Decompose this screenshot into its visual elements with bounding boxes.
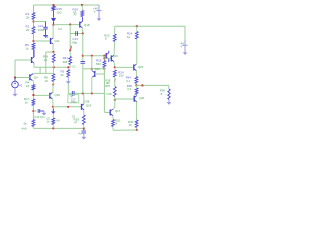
svg-text:Q18: Q18 [84,23,90,27]
svg-text:V: V [94,10,96,14]
svg-text:C19 10u: C19 10u [34,115,45,119]
svg-text:64: 64 [57,118,61,122]
svg-text:Q40: Q40 [95,67,101,71]
svg-text:1n: 1n [46,119,50,123]
svg-text:C4: C4 [58,27,62,31]
svg-text:10: 10 [129,123,133,127]
svg-text:100: 100 [57,10,62,14]
svg-text:Q17: Q17 [115,109,121,113]
svg-text:C26: C26 [106,92,112,96]
svg-text:Q24: Q24 [138,65,144,69]
svg-text:100u: 100u [38,28,45,32]
svg-text:4u: 4u [78,131,82,135]
svg-text:V1: V1 [19,83,23,87]
svg-text:47: 47 [74,121,78,125]
svg-text:V: V [180,44,182,48]
svg-text:2k: 2k [61,73,65,77]
svg-text:68p: 68p [72,40,77,44]
svg-text:C2: C2 [72,65,76,69]
svg-text:2k: 2k [26,16,30,20]
svg-text:1d: 1d [44,58,48,62]
svg-text:16: 16 [26,84,30,88]
svg-text:16: 16 [45,79,49,83]
svg-text:C6: C6 [72,115,76,119]
svg-text:560: 560 [96,62,101,66]
svg-text:4n9: 4n9 [22,126,27,130]
svg-text:100: 100 [119,74,124,78]
svg-text:Q16: Q16 [113,54,119,58]
svg-text:0.1: 0.1 [127,87,131,91]
svg-text:Q11: Q11 [55,39,61,43]
svg-text:Q10: Q10 [55,93,61,97]
svg-text:C9: C9 [45,35,49,39]
svg-text:Q41: Q41 [139,96,145,100]
svg-text:Q19: Q19 [86,103,92,107]
svg-text:A7: A7 [74,13,78,17]
svg-text:4k8: 4k8 [63,60,68,64]
svg-text:100p: 100p [71,100,77,104]
svg-text:1k: 1k [25,100,29,104]
svg-text:Q4: Q4 [34,75,38,79]
svg-text:0.1: 0.1 [126,79,130,83]
svg-text:2k: 2k [24,122,28,126]
svg-text:2k: 2k [26,28,30,32]
svg-text:R87: R87 [105,84,110,88]
